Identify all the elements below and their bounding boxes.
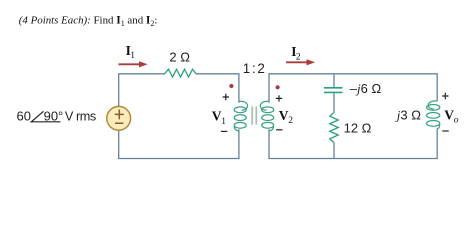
label j3 Ω — [395, 108, 421, 123]
resistor R2 12Ω — [330, 113, 338, 143]
label 60∠90° V rms — [17, 108, 96, 123]
svg-text:1: 1 — [221, 117, 226, 127]
label Vo — [444, 107, 458, 125]
label V2 — [279, 108, 293, 126]
wire: secondary bottom — [269, 128, 437, 158]
svg-text:60: 60 — [17, 108, 31, 123]
transformer T1 secondary coil — [260, 101, 273, 131]
label I2 — [291, 44, 301, 62]
label 2 Ω — [169, 50, 190, 65]
minus sign V1 — [221, 130, 227, 132]
current arrow I2 — [286, 59, 315, 65]
minus sign V2 — [276, 129, 282, 131]
svg-text:1: 1 — [130, 51, 135, 61]
inductor L1 j3Ω — [427, 101, 440, 129]
wire: secondary top — [269, 74, 437, 103]
svg-text:V rms: V rms — [65, 109, 96, 123]
svg-text:2: 2 — [296, 53, 301, 63]
svg-text:o: o — [454, 115, 459, 125]
label V1 — [212, 109, 226, 127]
wire: middle branch between capacitor and resistor — [333, 93, 335, 112]
plus sign V2 — [276, 95, 282, 101]
label 1:2 — [243, 61, 267, 76]
wire: left loop top (source to resistor) — [119, 74, 165, 107]
svg-text:2 Ω: 2 Ω — [169, 50, 190, 65]
transformer T1 primary coil — [234, 101, 247, 131]
svg-text:(4 Points Each): Find I1 and I: (4 Points Each): Find I1 and I2: — [19, 15, 158, 29]
minus sign Vo — [442, 130, 448, 132]
current arrow I1 — [119, 61, 148, 67]
voltage source Vs 60∠90° V rms — [107, 106, 131, 130]
dot secondary winding — [276, 85, 280, 89]
capacitor C1 -j6Ω — [324, 88, 343, 93]
wire: primary coil bottom to source bottom — [119, 129, 239, 158]
label 12 Ω — [344, 120, 372, 135]
wire: middle branch top — [333, 75, 335, 88]
svg-text:2: 2 — [288, 116, 293, 126]
svg-text:1:2: 1:2 — [243, 61, 267, 76]
label I1 — [126, 43, 136, 61]
wire: middle branch bottom — [333, 143, 335, 159]
label -j6 Ω — [350, 81, 382, 96]
resistor R1 2Ω — [165, 69, 197, 77]
svg-text:12 Ω: 12 Ω — [344, 120, 372, 135]
svg-text:90°: 90° — [44, 108, 64, 123]
svg-text:j3 Ω: j3 Ω — [395, 108, 421, 123]
heading text — [19, 15, 158, 29]
plus sign V1 — [223, 94, 229, 100]
dot primary winding — [229, 84, 233, 88]
wire: top right of resistor to transformer primary — [196, 74, 239, 103]
transformer core — [252, 106, 256, 124]
svg-text:–j6 Ω: –j6 Ω — [350, 81, 382, 96]
plus sign Vo — [442, 93, 448, 99]
